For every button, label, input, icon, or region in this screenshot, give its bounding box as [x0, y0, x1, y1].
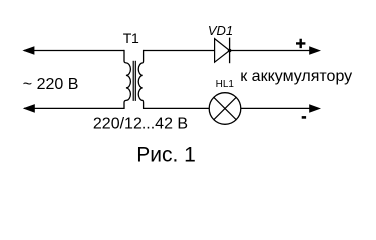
svg-text:T1: T1	[123, 30, 139, 46]
transformer T1 primary winding (left)	[124, 50, 130, 109]
arrowhead top-right	[309, 46, 321, 55]
transformer T1 secondary winding (right)	[138, 50, 143, 109]
minus terminal label	[302, 116, 306, 119]
svg-text:VD1: VD1	[208, 23, 233, 38]
svg-text:Рис. 1: Рис. 1	[136, 144, 196, 167]
svg-text:~ 220 В: ~ 220 В	[23, 76, 79, 93]
wire top-left (from left arrow to T1 primary)	[24, 50, 124, 52]
diode VD1 cathode bar	[229, 38, 231, 64]
arrowhead top-left	[22, 46, 34, 55]
wire top-right (diode to + arrow)	[230, 50, 310, 52]
lamp HL1 cross	[214, 97, 236, 119]
lamp HL1 circle	[209, 93, 241, 125]
arrowhead bottom-right	[309, 104, 321, 113]
diode VD1 anode triangle	[215, 39, 230, 63]
wire top (T1 to diode VD1)	[144, 50, 215, 52]
wire bottom (T1 to lamp HL1)	[144, 107, 210, 109]
svg-text:к аккумулятору: к аккумулятору	[240, 68, 352, 85]
svg-text:220/12...42 В: 220/12...42 В	[93, 115, 188, 132]
plus terminal label	[296, 39, 305, 48]
svg-text:HL1: HL1	[216, 79, 235, 90]
wire bottom-left (from left arrow to T1 primary)	[24, 107, 124, 109]
arrowhead bottom-left	[23, 104, 35, 113]
transformer T1 core	[132, 61, 134, 101]
junction dot at diode cathode	[228, 49, 232, 53]
wire bottom-right (lamp to - arrow)	[241, 107, 310, 109]
